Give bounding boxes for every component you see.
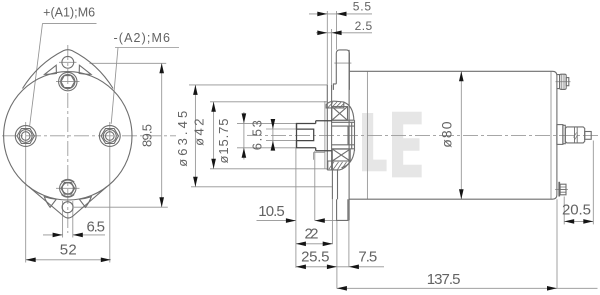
- svg-text:89.5: 89.5: [140, 124, 155, 147]
- svg-text:ø63.45: ø63.45: [175, 111, 190, 167]
- svg-text:+(A1);M6: +(A1);M6: [43, 5, 95, 19]
- svg-text:52: 52: [60, 241, 77, 258]
- svg-text:25.5: 25.5: [301, 248, 329, 265]
- svg-text:ø15.75: ø15.75: [216, 119, 231, 164]
- svg-text:20.5: 20.5: [562, 202, 591, 219]
- svg-text:5.5: 5.5: [353, 0, 372, 13]
- svg-text:-(A2);M6: -(A2);M6: [114, 31, 171, 45]
- svg-text:2.5: 2.5: [355, 19, 373, 33]
- svg-text:7.5: 7.5: [358, 248, 377, 265]
- svg-text:10.5: 10.5: [258, 203, 285, 220]
- svg-text:137.5: 137.5: [427, 271, 461, 288]
- svg-text:ø42: ø42: [192, 119, 207, 146]
- svg-text:ø80: ø80: [438, 121, 454, 148]
- svg-text:22: 22: [305, 226, 319, 243]
- svg-text:6.53: 6.53: [250, 120, 265, 150]
- svg-text:6.5: 6.5: [86, 218, 105, 235]
